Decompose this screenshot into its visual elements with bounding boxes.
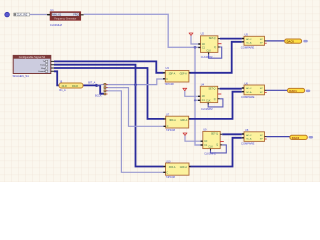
svg-text:AC-C: AC-C — [246, 38, 252, 41]
svg-text:CLK: CLK — [208, 147, 213, 149]
svg-text:Q: Q — [214, 47, 216, 49]
svg-text:COMPARE: COMPARE — [241, 45, 255, 49]
svg-text:CLK: CLK — [206, 101, 211, 103]
svg-text:Configurable Signal S1: Configurable Signal S1 — [19, 55, 46, 59]
svg-text:74HC08: 74HC08 — [166, 176, 176, 179]
svg-text:GDF-A: GDF-A — [180, 73, 188, 76]
svg-text:SET-Q: SET-Q — [209, 38, 216, 40]
svg-text:1D: 1D — [204, 141, 207, 143]
svg-text:AC-C: AC-C — [246, 134, 252, 137]
svg-text:FRQ: FRQ — [73, 14, 78, 17]
svg-text:CLK1MHZ: CLK1MHZ — [204, 152, 216, 155]
svg-text:CLK4MHZ: CLK4MHZ — [50, 23, 63, 27]
svg-text:BCLK: BCLK — [95, 93, 102, 97]
svg-text:RD-R: RD-R — [72, 85, 78, 88]
svg-text:SC-A: SC-A — [246, 41, 252, 44]
svg-text:DAC0: DAC0 — [287, 39, 295, 43]
svg-text:CLK_IN2: CLK_IN2 — [17, 13, 28, 17]
svg-text:Q: Q — [216, 145, 218, 147]
svg-text:40-R: 40-R — [62, 85, 67, 88]
svg-text:SET-Q: SET-Q — [209, 89, 216, 91]
svg-text:Q: Q — [214, 99, 216, 101]
svg-text:U3: U3 — [166, 66, 170, 70]
svg-text:SC-A: SC-A — [246, 138, 252, 141]
svg-text:AC-C: AC-C — [246, 87, 252, 90]
svg-text:CLK4MHZ: CLK4MHZ — [201, 56, 213, 59]
svg-text:SC-A: SC-A — [246, 91, 252, 94]
svg-text:74HC08: 74HC08 — [166, 129, 176, 132]
svg-text:GDF-A: GDF-A — [180, 166, 188, 169]
svg-text:3DF-A: 3DF-A — [169, 119, 176, 122]
svg-text:BIT_A: BIT_A — [88, 80, 95, 84]
svg-text:SET-Q: SET-Q — [211, 134, 218, 136]
svg-text:MHL-01: MHL-01 — [52, 14, 62, 17]
svg-text:Comnd: Comnd — [38, 71, 46, 73]
svg-text:CLK: CLK — [207, 50, 212, 52]
svg-text:U2: U2 — [201, 32, 205, 36]
svg-text:R1_A: R1_A — [59, 89, 66, 92]
svg-text:DAC2: DAC2 — [292, 136, 300, 140]
svg-text:Data: Data — [40, 64, 45, 67]
svg-text:3DF-A: 3DF-A — [169, 73, 176, 76]
svg-text:1D: 1D — [202, 44, 205, 46]
svg-text:3DF-A: 3DF-A — [169, 166, 176, 169]
svg-text:SIGGEN_S1: SIGGEN_S1 — [13, 74, 30, 78]
svg-text:COMPARE: COMPARE — [241, 142, 255, 146]
svg-text:GDF-A: GDF-A — [180, 119, 188, 122]
svg-text:DAC1: DAC1 — [289, 89, 297, 93]
svg-text:Frequency Generator: Frequency Generator — [54, 17, 76, 20]
svg-text:1D: 1D — [202, 96, 205, 98]
svg-text:CLK2MHZ: CLK2MHZ — [201, 108, 213, 111]
svg-text:U5: U5 — [245, 32, 249, 36]
svg-text:74HC08: 74HC08 — [165, 83, 175, 86]
svg-text:COMPARE: COMPARE — [241, 95, 255, 99]
